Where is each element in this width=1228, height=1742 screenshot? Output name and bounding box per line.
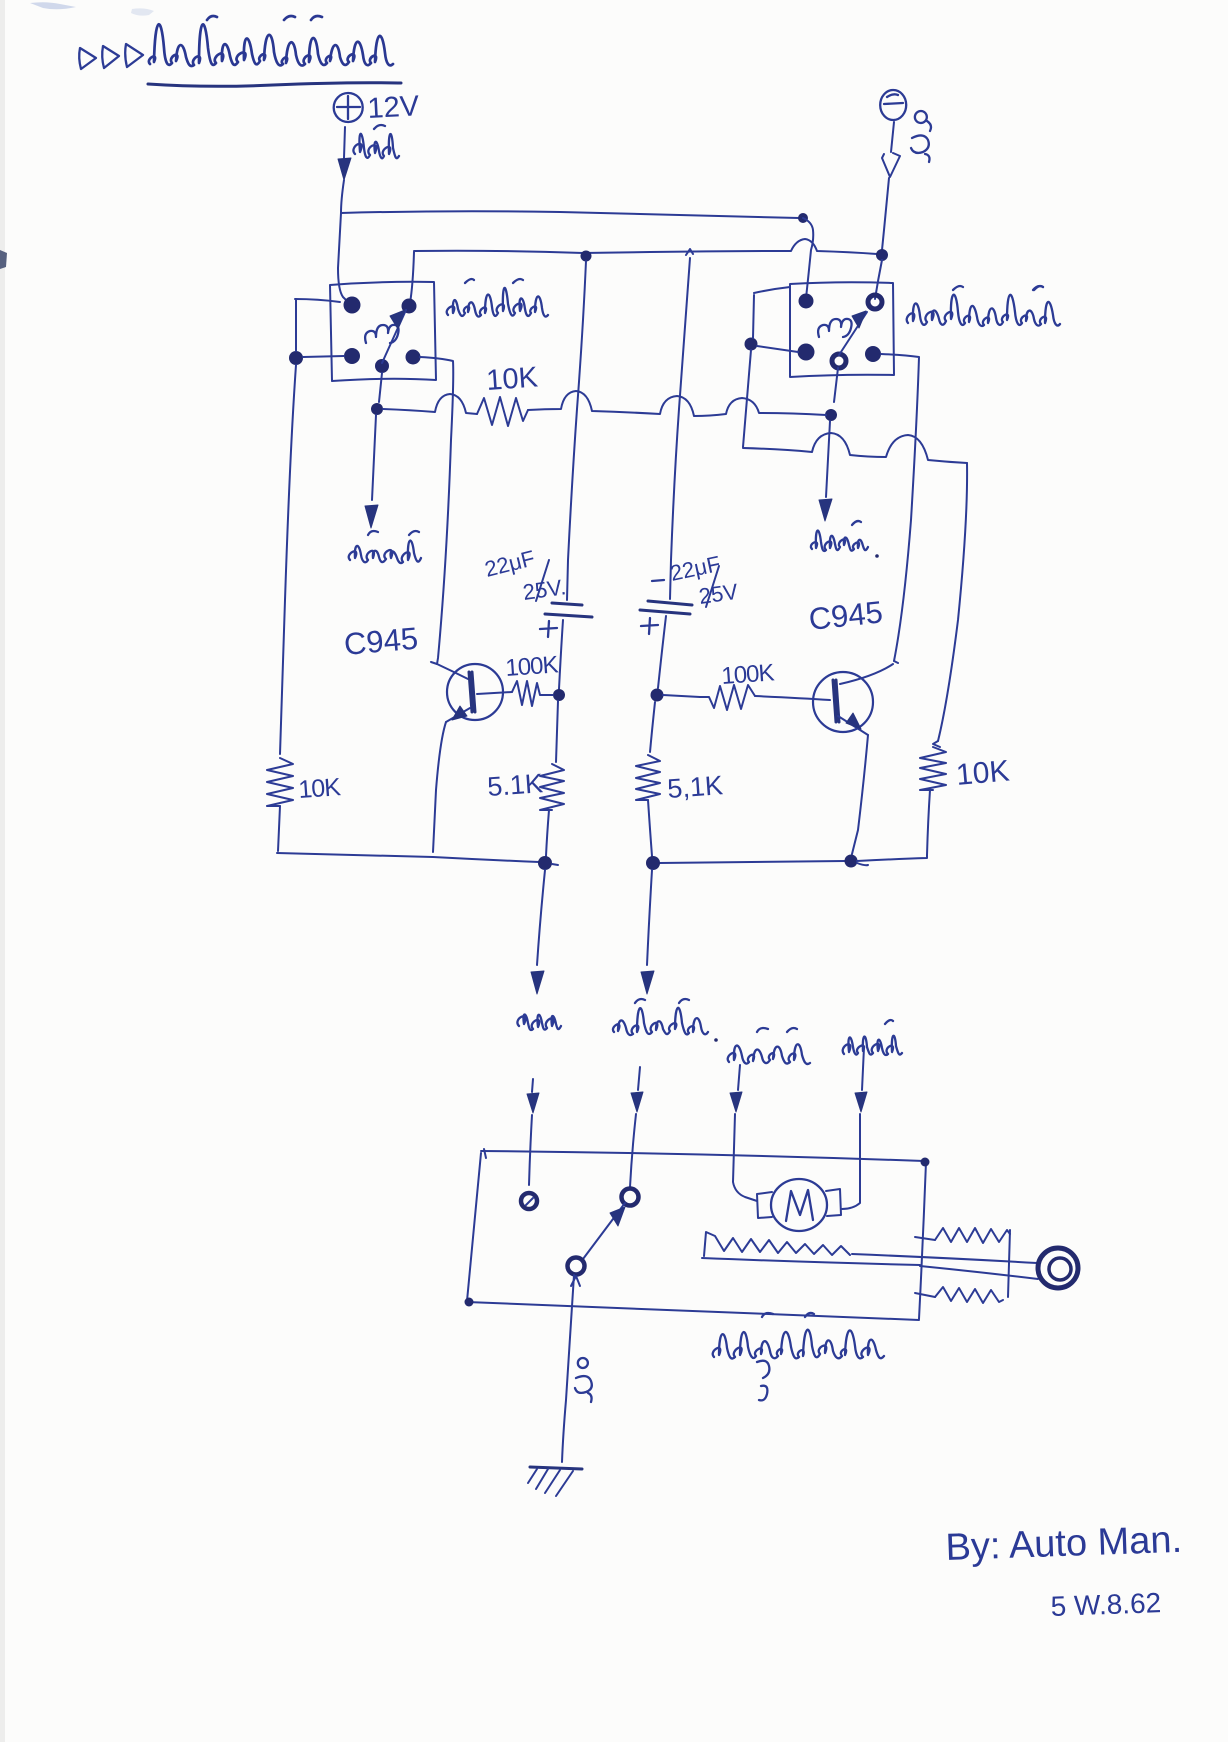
node: wire B to cap1 branch [581,251,592,262]
svg-text:12V: 12V [367,90,421,125]
wire: D1 down to blue arrow [372,415,376,500]
label nam-tan (brown) [613,1008,708,1035]
label khao (white) [517,1014,561,1030]
label relay unlock (Thai) [907,295,1060,326]
svg-text:10K: 10K [297,773,342,804]
wire: K1 left rail down to R 10K [280,365,296,754]
motor M [771,1179,827,1231]
title text (Thai) wong-jon central lock [149,24,393,66]
label nam-ngoen bottom (blue) [728,1044,810,1064]
piston rod [852,1254,1037,1263]
rack sawtooth [704,1232,850,1256]
wire: K1 arm pin down to node D1 [379,373,382,402]
rod end ring [1038,1248,1078,1288]
label dam (black) rotated [578,1358,588,1368]
svg-text:22μF: 22μF [482,545,537,581]
label C2 minus [652,580,664,581]
red-wire arrow (to relays) [344,127,345,158]
resistor R6 5.1K (right) [636,755,660,800]
capacitor C1 22uF/25V [552,603,582,605]
wire: K2 right pin to Q2 collector [881,354,919,661]
resistor R5 5.1K (left) [540,764,564,810]
paper edge shading [0,0,5,1742]
Q2 emitter with arrow [838,716,868,735]
label puen ying pratu (door gun) [713,1330,884,1359]
Q1 emitter with arrow [446,708,470,722]
label relay lock (Thai) [447,288,548,317]
resistor R3 100K [700,685,755,710]
ground symbol [530,1467,582,1469]
+12V supply symbol [334,93,363,122]
relay K1 coil [365,325,398,343]
stub wire to terminal T1 (white) [532,1079,533,1092]
node: wire A junction [798,213,808,223]
svg-text:5,1K: 5,1K [666,770,724,804]
svg-text:C945: C945 [807,594,884,637]
relay K2 pins [799,294,814,309]
Q1 base to 100K [477,692,512,694]
label khiao bottom (green) [843,1036,902,1055]
relay K1 pins [344,297,361,314]
relay K1 left rail + pin node [289,351,303,365]
C2 plus sign [641,618,658,634]
svg-text:100K: 100K [505,651,560,682]
wire B: second rail [410,252,414,303]
svg-text:5.1K: 5.1K [486,768,544,802]
wire: K2 left rail down [743,350,751,447]
wire A: top rail 12V to relay K2 [341,211,799,218]
wire: vertical1 from wire B to cap C1 [567,261,586,600]
wire: black line down to relay K2 [875,260,882,299]
wire: C1 to node D3 [559,620,563,689]
node D3 [553,689,565,701]
title arrows >>> [79,48,96,69]
terminal T1 [521,1193,537,1209]
svg-text:100K: 100K [721,659,776,690]
transistor Q1 C945 [431,662,437,664]
node: wire B to black wire [876,249,888,261]
svg-text:10K: 10K [485,361,539,397]
node D1 [371,403,383,415]
wire: switch to ground [562,1275,574,1462]
repeat mark [757,1361,769,1401]
relay K2 outside node [745,338,758,351]
actuator box (door gun) [481,1151,924,1161]
svg-text:C945: C945 [343,621,420,662]
C1 plus sign [540,621,557,637]
node DG1 [538,856,552,870]
black-wire with open arrow [891,122,894,152]
wire: bottom rail right segment [659,861,845,863]
-12V (ground) supply symbol [880,90,906,120]
motor brackets [757,1192,772,1218]
svg-text:25V.: 25V. [521,574,567,605]
wire: cap2 branch tick at top [686,249,693,255]
label nam-ngoen (blue) [349,541,421,563]
relay K2 (unlock) box [790,282,894,377]
label dam (black) rotated [915,111,931,131]
resistor R1 10K wire [383,394,477,414]
stub wire to switch SW (brown) [638,1067,640,1090]
wire: bottom rail left segment [277,853,539,862]
wire: K1 pin to transistor Q1 collector [420,357,453,664]
wire: K2 center pin down through node D2 [834,368,838,402]
svg-text:5 W.8.62: 5 W.8.62 [1050,1587,1162,1622]
scanner smudge top-left [30,2,76,9]
stub wire to motor left (blue) [738,1065,740,1090]
node D4 [651,689,664,702]
wire: y450 rail to right corner [743,433,967,463]
relay K1 (lock) box [330,282,436,381]
resistor R4 10K (left) [267,758,293,806]
relay K2 switch arm [839,312,867,355]
svg-text:10K: 10K [955,754,1011,792]
wire: vertical2 from wire B to cap C2 [670,258,690,599]
resistor R2 100K [512,681,553,706]
spring resistor bottom right [915,1293,935,1297]
wire: DG2 down to brown arrow [647,870,652,965]
capacitor C2 22uF/25V [648,601,692,605]
relay K1 switch arm [382,310,406,363]
pin ring [868,295,882,309]
transistor Q2 C945 [894,661,898,663]
svg-text:By: Auto Man.: By: Auto Man. [945,1519,1183,1569]
svg-text:25V: 25V [697,579,740,609]
left edge notch mark [0,250,7,269]
spring resistor top right [915,1237,935,1240]
node DG2 [646,856,660,870]
wire: C2 to node D4 [658,616,666,688]
Q2 base to 100K [755,696,830,700]
label daeng (red) [353,134,399,158]
label khiao (green) [811,531,868,551]
node DG3 [845,855,858,868]
node D2 [825,409,837,421]
relay K2 coil [818,319,851,337]
wire: DG1 down to white arrow [537,870,545,965]
wire: +12V down to relay K1 pin [338,180,347,301]
switch SW pivot and arm [622,1189,639,1206]
stub wire to motor right (green) [862,1047,864,1090]
resistor R7 10K (right) [933,741,940,747]
title underline [148,83,401,87]
